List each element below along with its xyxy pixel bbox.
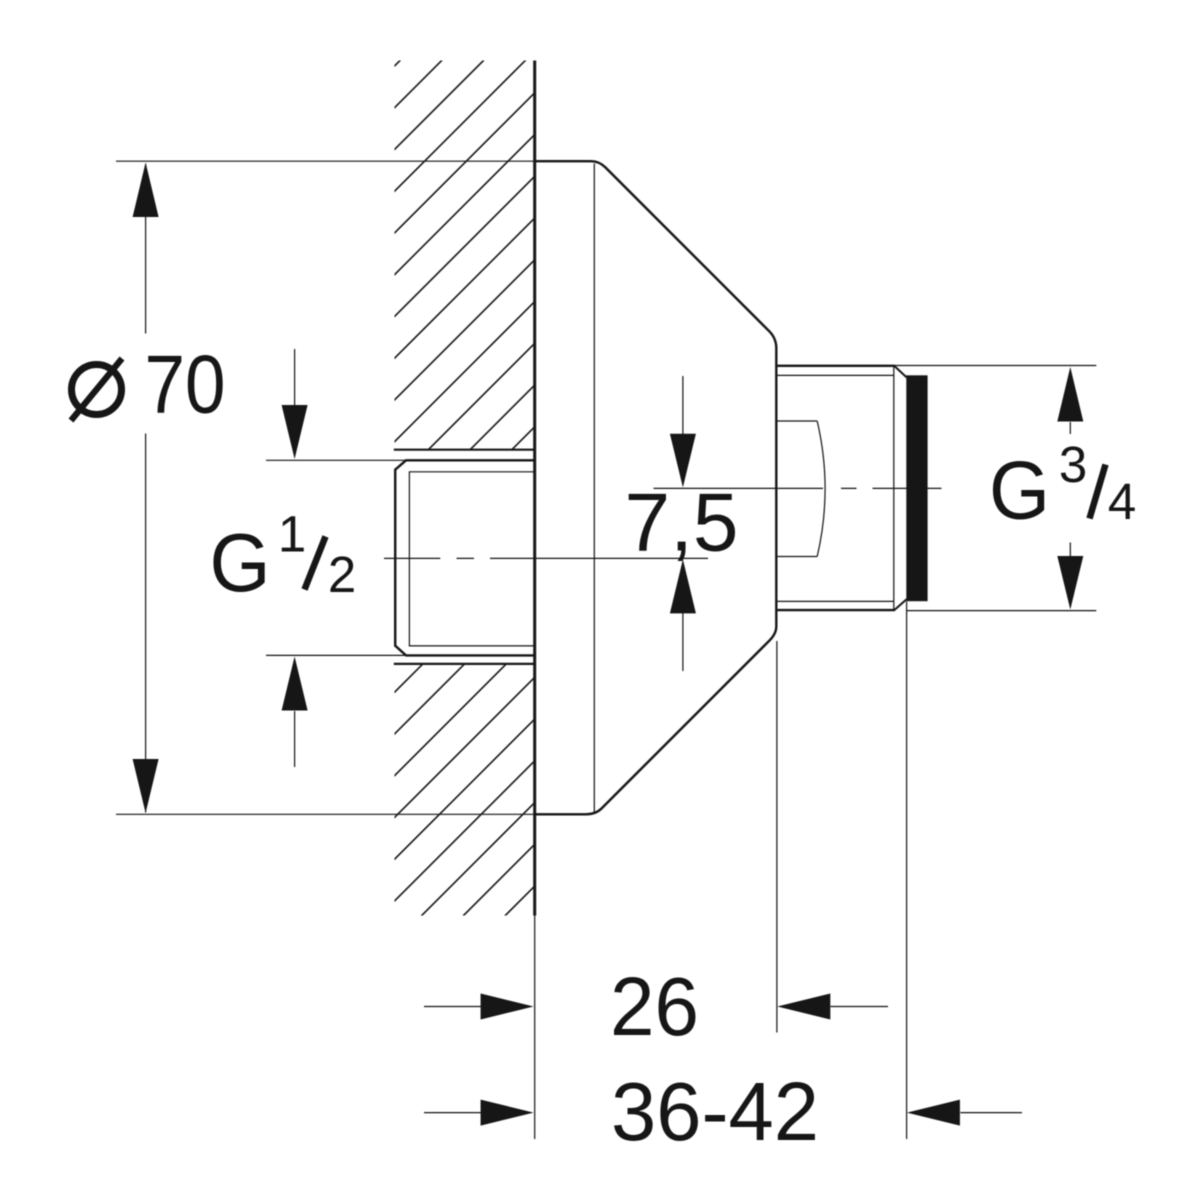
G3/4 bottom extension line	[907, 610, 1097, 612]
svg-text:4: 4	[1108, 473, 1136, 530]
dia70 top extension line	[116, 160, 535, 162]
internal recess arc	[817, 421, 825, 557]
7,5 upper arrow (down)	[682, 376, 684, 434]
G3/4 lower arrow (down)	[1069, 543, 1071, 557]
svg-text:G: G	[210, 516, 271, 609]
G3/4 centerline	[654, 487, 942, 489]
dia70 label diameter symbol	[72, 365, 122, 415]
36-42 dimension right arrow (left-pointing)	[960, 1112, 1022, 1114]
wall face extension line (thin, to 36-42 dim)	[534, 916, 536, 1140]
G3/4 nipple right edge	[893, 366, 895, 609]
internal recess (socket) lines	[778, 421, 818, 557]
G3/4 upper arrow (up)	[1069, 422, 1071, 434]
G3/4 nipple chamfer corners	[894, 366, 906, 610]
G1/2 thread root lines (inner)	[409, 472, 534, 646]
wall hatching	[380, 50, 1200, 1041]
gasket (black seal ring)	[906, 375, 927, 601]
wall hole lower edge	[394, 663, 535, 665]
26 dimension right arrow (left-pointing)	[831, 1006, 889, 1008]
G3/4 nipple outline	[776, 366, 895, 610]
G1/2 thread top extension line	[266, 459, 406, 461]
wall face line	[533, 61, 536, 916]
dia70 dimension line	[145, 164, 147, 813]
wall hole upper edge	[394, 449, 535, 451]
svg-text:2: 2	[328, 546, 356, 603]
36-42 dimension left arrow (right-pointing)	[424, 1112, 481, 1114]
svg-text:70: 70	[145, 338, 226, 431]
G3/4 label	[989, 436, 1136, 537]
escutcheon back inner edge	[593, 164, 595, 813]
escutcheon cone outline	[535, 161, 777, 814]
svg-text:G: G	[989, 444, 1050, 537]
dia70 top arrowhead	[133, 163, 159, 218]
G1/2 centerline	[384, 557, 708, 559]
G1/2 lower arrow (up)	[294, 711, 296, 767]
svg-text:36-42: 36-42	[611, 1065, 819, 1158]
G3/4 nipple thread root lines	[776, 375, 894, 601]
G3/4 top extension line	[894, 365, 1096, 367]
svg-text:1: 1	[278, 506, 306, 563]
G1/2 thread bottom extension line	[266, 654, 406, 656]
G1/2 thread outer outline	[395, 460, 534, 655]
26 dimension left arrow (right-pointing)	[424, 1006, 481, 1008]
36-42 extension line (gasket face)	[906, 602, 908, 1140]
26 extension line (cone face)	[776, 641, 778, 1033]
G1/2 upper arrow (down)	[294, 349, 296, 406]
dia70 bottom arrowhead	[133, 759, 159, 813]
dia70 bottom extension line	[116, 813, 535, 815]
svg-text:3: 3	[1059, 436, 1087, 493]
svg-text:7,5: 7,5	[625, 476, 739, 569]
G1/2 label	[210, 506, 357, 610]
7,5 lower arrow (up)	[682, 613, 684, 671]
svg-text:26: 26	[610, 960, 699, 1053]
